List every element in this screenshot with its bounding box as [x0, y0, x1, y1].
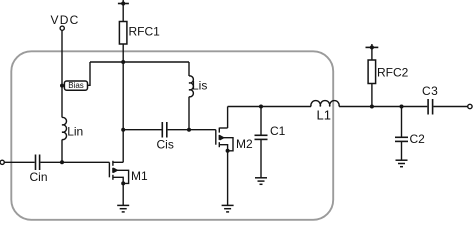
wire top rail	[90, 61, 189, 63]
svg-text:Lis: Lis	[192, 79, 207, 93]
svg-text:Cin: Cin	[30, 170, 48, 184]
wire C2 riser	[401, 107, 403, 138]
input port	[0, 160, 4, 164]
node C1 junction	[259, 105, 263, 109]
wire M1 drain to Cis	[123, 129, 161, 131]
wire VDC down to Lin	[61, 30, 63, 117]
node A (input/Lin junction)	[60, 160, 64, 164]
wire Lis bottom to interstage rail	[188, 97, 190, 130]
svg-text:RFC1: RFC1	[129, 25, 161, 39]
node Lis junction	[187, 128, 191, 132]
svg-text:C2: C2	[410, 132, 426, 146]
wire supply to RFC1	[122, 4, 124, 22]
wire Lin bottom to node A	[61, 140, 63, 163]
wire Cis to M2 gate	[168, 129, 216, 131]
wire M2 source to ground	[227, 151, 229, 206]
ground (M1)	[117, 205, 129, 212]
wire M1 source to ground	[122, 183, 124, 205]
bias box U-Bias	[64, 81, 87, 90]
VDC terminal	[60, 26, 64, 30]
amplifier box outline	[11, 51, 333, 220]
capacitor C3	[428, 99, 433, 115]
capacitor Cis	[162, 122, 167, 138]
node RFC1 bottom junction	[121, 60, 125, 64]
svg-text:M1: M1	[131, 169, 148, 183]
ground (C2)	[396, 160, 408, 167]
ground (C1)	[255, 178, 267, 185]
wire RFC2 down to rail	[371, 84, 373, 107]
capacitor C1	[255, 135, 268, 139]
wire C3 to output	[433, 106, 467, 108]
transistor M2	[216, 107, 233, 153]
wire Cin to node A	[40, 161, 62, 163]
capacitor C2	[395, 137, 408, 141]
transistor M1	[109, 161, 128, 186]
svg-text:Lin: Lin	[67, 125, 83, 139]
VDD supply bar above RFC1	[118, 3, 129, 5]
inductor Lin	[62, 117, 66, 139]
svg-text:VDC: VDC	[51, 13, 80, 27]
svg-text:L1: L1	[317, 108, 331, 123]
node RFC2 junction	[370, 105, 374, 109]
node C2 junction	[400, 105, 404, 109]
inductor L1	[311, 101, 339, 107]
wire input to Cin	[4, 161, 34, 163]
resistor RFC2	[368, 60, 376, 84]
inductor Lis	[189, 76, 193, 97]
wire C1 riser	[260, 107, 262, 136]
wire RFC1 down to M1 drain	[122, 44, 124, 162]
svg-text:Bias: Bias	[68, 81, 84, 90]
wire node A to M1 gate	[62, 161, 109, 163]
capacitor Cin	[36, 155, 40, 171]
svg-text:C1: C1	[270, 124, 286, 138]
wire supply to RFC2	[371, 47, 373, 60]
node bias tap	[60, 84, 64, 88]
svg-text:M2: M2	[236, 137, 253, 151]
svg-text:C3: C3	[422, 84, 438, 98]
output port	[468, 104, 472, 108]
resistor RFC1	[119, 22, 127, 45]
wire L1 to C3	[339, 106, 427, 108]
wire Lis drop	[188, 62, 190, 76]
svg-text:Cis: Cis	[157, 138, 174, 152]
wire C1 to ground	[260, 139, 262, 177]
VDD supply bar above RFC2	[366, 46, 379, 48]
svg-text:RFC2: RFC2	[377, 65, 409, 79]
wire bias box right riser	[88, 62, 91, 85]
wire C2 to ground	[401, 141, 403, 160]
wire output rail M2 drain to L1	[228, 106, 311, 108]
ground (M2)	[222, 205, 234, 212]
node M1 drain / Cis junction	[121, 128, 125, 132]
